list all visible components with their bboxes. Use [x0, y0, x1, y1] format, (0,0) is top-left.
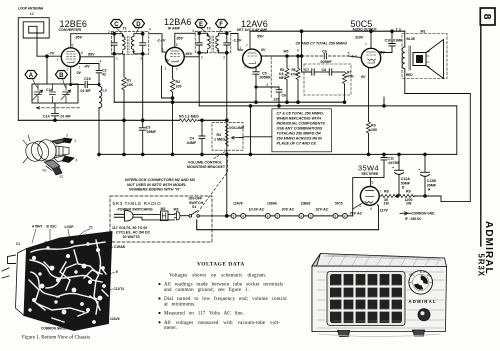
volume control pot sketch [23, 134, 78, 180]
B+ plate line across top [250, 30, 405, 32]
svg-text:1 MEG: 1 MEG [214, 138, 225, 142]
svg-text:A: A [29, 73, 34, 79]
speaker magnet and cone [413, 40, 444, 79]
svg-text:M5: M5 [284, 49, 289, 53]
sidebar rule [480, 25, 482, 246]
svg-text:INDIVIDUAL COMPONENTS: INDIVIDUAL COMPONENTS [277, 122, 326, 126]
filament 12BA6 [265, 202, 294, 219]
svg-text:+: + [418, 168, 420, 172]
svg-text:4: 4 [76, 158, 78, 162]
capacitor C9 .005MF coupling [300, 30, 361, 64]
svg-text:100: 100 [176, 85, 182, 89]
svg-text:2W: 2W [406, 202, 412, 206]
interlock connectors note [125, 178, 196, 192]
svg-text:T 3: T 3 [396, 28, 401, 32]
svg-text:5R3 TABLE RADIO: 5R3 TABLE RADIO [113, 201, 162, 206]
svg-text:NUMBERS ENDING WITH "N": NUMBERS ENDING WITH "N" [129, 188, 181, 192]
svg-text:3: 3 [334, 214, 336, 218]
svg-text:4: 4 [242, 214, 244, 218]
svg-text:6: 6 [297, 49, 299, 53]
svg-text:.05MF: .05MF [146, 130, 157, 134]
svg-text:R9: R9 [406, 190, 411, 194]
svg-text:6: 6 [370, 207, 372, 211]
node E hexagon [195, 20, 207, 33]
svg-text:LOOP ANTENNA: LOOP ANTENNA [18, 7, 44, 11]
svg-text:1: 1 [162, 48, 164, 52]
capacitor C2 42 [96, 64, 106, 85]
resistor R2 100 cathode [162, 66, 182, 156]
page number 8 box [480, 8, 495, 25]
node D hexagon [133, 20, 145, 33]
svg-text:1: 1 [240, 46, 242, 50]
svg-text:3: 3 [201, 56, 203, 60]
svg-text:5: 5 [372, 181, 374, 185]
svg-text:1: 1 [79, 66, 81, 70]
svg-text:S1: S1 [192, 205, 196, 209]
common ground pointer [41, 320, 72, 331]
capacitor C11 .047MF [371, 153, 401, 178]
resistor R7 470K [343, 71, 355, 104]
svg-text:3: 3 [310, 214, 312, 218]
svg-text:3V: 3V [165, 59, 170, 63]
svg-text:12BA6: 12BA6 [164, 17, 192, 27]
svg-text:B OSC: B OSC [47, 225, 58, 229]
svg-text:LOOP: LOOP [65, 225, 75, 229]
svg-text:CONVERTER: CONVERTER [59, 28, 82, 32]
chassis bottom view figure [2, 232, 112, 331]
svg-text:COMMON GND.: COMMON GND. [412, 212, 436, 216]
wire T1 secondary top to 12BA6 grid [149, 34, 166, 52]
svg-text:C7 & C8 TOTAL 250 MMFD.: C7 & C8 TOTAL 250 MMFD. [277, 112, 324, 116]
svg-text:5: 5 [258, 63, 260, 67]
svg-text:3: 3 [276, 214, 278, 218]
svg-text:117 VOLTS, 50 TO 60: 117 VOLTS, 50 TO 60 [112, 226, 147, 230]
node C hexagon [111, 20, 123, 33]
svg-text:4: 4 [300, 214, 302, 218]
svg-text:NOT USED IN SETS WITH MODEL: NOT USED IN SETS WITH MODEL [127, 183, 187, 187]
svg-text:-1.4V: -1.4V [157, 39, 166, 43]
wire T2 secondary to 12AV6 grid [231, 34, 243, 51]
resistor R5 6.8 MEG [279, 55, 289, 104]
svg-text:CYCLES, AC OR DC: CYCLES, AC OR DC [116, 231, 151, 235]
svg-text:5: 5 [348, 52, 350, 56]
wire speaker return [405, 94, 471, 202]
svg-text:IF AMP: IF AMP [168, 27, 181, 31]
svg-text:3: 3 [266, 83, 268, 87]
svg-text:85V: 85V [186, 52, 193, 56]
wire 12BE6 plate to T1 [71, 34, 115, 48]
wire 12AV6 diode line to M5 [261, 48, 303, 57]
svg-text:1W: 1W [384, 202, 390, 206]
svg-text:All voltages measured with vac: All voltages measured with vacuum-tube v… [164, 320, 280, 326]
interlock connector M2 [161, 207, 175, 221]
svg-text:L2: L2 [103, 89, 107, 93]
svg-text:F: F [219, 22, 223, 28]
tuning gang box [32, 84, 78, 103]
svg-text:C14: C14 [43, 114, 50, 118]
svg-text:2: 2 [223, 56, 225, 60]
svg-text:L1: L1 [30, 12, 34, 16]
svg-text:220: 220 [274, 97, 280, 101]
svg-text:55V: 55V [257, 35, 264, 39]
svg-text:85V: 85V [177, 36, 184, 40]
svg-text:4: 4 [344, 214, 346, 218]
svg-text:VOLUME: VOLUME [229, 126, 245, 130]
svg-text:C8 AND C7 TOTAL 250 MMFD: C8 AND C7 TOTAL 250 MMFD [296, 41, 348, 45]
svg-text:10.6V AC: 10.6V AC [249, 208, 265, 212]
svg-text:D: D [136, 22, 141, 28]
svg-text:22K: 22K [127, 83, 134, 87]
filament string line [225, 215, 352, 218]
svg-text:A: A [428, 188, 431, 192]
svg-text:R6: R6 [292, 68, 296, 72]
svg-text:120: 120 [421, 270, 426, 274]
svg-text:B: B [59, 73, 64, 79]
svg-text:.04MF: .04MF [186, 141, 197, 145]
resistor R9 1200 2W [399, 190, 441, 206]
wire 12BE6 cathode pin 2 down [71, 67, 82, 85]
svg-text:4: 4 [192, 29, 194, 33]
50C5 cathode resistor line [361, 68, 377, 156]
wire 12BE6 pin 6 to T1 secondary low [80, 52, 114, 56]
svg-text:D: D [402, 186, 405, 190]
svg-text:-7V: -7V [49, 51, 55, 55]
node F hexagon [216, 20, 228, 33]
power switching dashed box [110, 196, 212, 242]
loop antenna L1 [18, 7, 49, 121]
svg-text:at minimums.: at minimums. [164, 301, 196, 307]
svg-text:85V: 85V [76, 36, 83, 40]
svg-text:R5 2.2 MEG: R5 2.2 MEG [179, 114, 199, 118]
svg-text:BLUE: BLUE [407, 37, 416, 41]
svg-text:470K: 470K [346, 75, 354, 79]
tube 50C5 audio output [351, 19, 386, 68]
wire 12BA6 pin 6 to T2 [184, 52, 199, 57]
oscillator coil L2 [70, 83, 107, 155]
gang mechanical dashed link [37, 107, 81, 109]
capacitor C5 .005MF [253, 68, 272, 104]
interlock connector M3 [174, 208, 180, 221]
svg-text:20V AC: 20V AC [281, 208, 295, 212]
svg-text:R1: R1 [127, 79, 132, 83]
svg-text:Measured on 117 Volts AC line.: Measured on 117 Volts AC line. [164, 311, 244, 317]
on-off switch S1 [180, 197, 227, 218]
svg-text:A WHT: A WHT [32, 225, 42, 229]
common ground legend [400, 212, 435, 222]
svg-text:6: 6 [81, 51, 83, 55]
svg-text:C12/T4: C12/T4 [114, 287, 125, 291]
dashed box detector group [304, 64, 351, 95]
filament 50C5 [333, 202, 363, 219]
wire node -7V to 12BE6 pin 7 [37, 51, 61, 61]
wire 12AV6 pin3 to C6 [256, 83, 279, 87]
svg-text:76V AC: 76V AC [350, 211, 363, 215]
svg-text:470K: 470K [291, 73, 299, 77]
svg-text:5: 5 [176, 43, 178, 47]
svg-text:.005MF: .005MF [259, 75, 272, 79]
svg-text:R1: R1 [43, 169, 47, 173]
output transformer T3 [396, 28, 416, 94]
svg-text:8: 8 [481, 14, 493, 20]
svg-text:M1: M1 [421, 30, 426, 34]
svg-text:30 WATTS: 30 WATTS [123, 235, 141, 239]
wire AVC down to tuning gang [46, 56, 48, 84]
common ground bus y154 [99, 153, 457, 155]
capacitor C10 .01MF [381, 30, 404, 53]
voltage data text [158, 273, 287, 332]
node A hexagon [25, 71, 38, 88]
svg-text:T1: T1 [123, 26, 127, 30]
svg-text:5: 5 [72, 44, 74, 48]
svg-text:2: 2 [75, 139, 77, 143]
svg-text:7: 7 [380, 190, 382, 194]
variable capacitor C1 front section [33, 84, 43, 103]
svg-text:3: 3 [140, 57, 142, 61]
wire 12AV6 plate to B+ line [250, 31, 264, 49]
svg-text:C7: C7 [305, 68, 310, 72]
tube 35W4 rectifier [358, 164, 388, 213]
svg-text:Y2: Y2 [59, 175, 63, 179]
AC return line bottom [197, 220, 379, 230]
wire x250 [250, 106, 252, 154]
wire x456 down [456, 106, 458, 154]
electrolytic C12A 50MF [392, 153, 411, 196]
svg-text:0V: 0V [77, 71, 82, 75]
svg-text:50C5: 50C5 [335, 202, 343, 206]
svg-text:5R3X: 5R3X [477, 254, 486, 278]
wire B minus line right [383, 97, 386, 107]
svg-text:E: E [199, 22, 203, 28]
svg-text:M3: M3 [174, 208, 179, 212]
dashed volume shaft link [270, 57, 272, 98]
svg-text:-8V: -8V [84, 64, 90, 68]
B minus bus y106 [199, 53, 457, 106]
svg-text:T2: T2 [207, 26, 211, 30]
capacitor C3 .05MF line [139, 54, 157, 156]
svg-text:C8: C8 [322, 68, 327, 72]
filament 12BE6 [299, 202, 329, 219]
power switching titles [112, 201, 161, 239]
svg-text:1: 1 [116, 57, 118, 61]
svg-text:RED: RED [406, 73, 413, 77]
svg-text:2: 2 [244, 65, 246, 69]
svg-text:C9: C9 [322, 49, 327, 53]
volume control R4 1 MEG [212, 53, 272, 216]
svg-text:0V: 0V [361, 75, 366, 79]
svg-text:5-2: 5-2 [352, 55, 357, 59]
svg-text:WHEN REPLACING WITH: WHEN REPLACING WITH [277, 117, 322, 121]
svg-text:29-C4RD: 29-C4RD [44, 240, 57, 244]
capacitor C4 .04MF [186, 119, 205, 156]
svg-text:4: 4 [149, 28, 151, 32]
svg-text:R2: R2 [176, 80, 181, 84]
svg-text:M2: M2 [161, 207, 166, 211]
svg-text:.005MF: .005MF [320, 60, 333, 64]
volume control mounting bracket note [187, 151, 227, 170]
svg-text:85V: 85V [88, 52, 95, 56]
svg-text:2: 2 [108, 30, 110, 34]
svg-text:7: 7 [57, 58, 59, 62]
svg-text:RECTIFIER: RECTIFIER [362, 172, 380, 176]
tube 12BA6 IF amp [162, 17, 192, 72]
svg-text:Voltages shown on schematic di: Voltages shown on schematic diagram. [169, 273, 266, 279]
wire 12BA6 plate to T2 [175, 33, 195, 47]
svg-text:7: 7 [176, 68, 178, 72]
resistor R1 22K [122, 54, 134, 156]
wire 12BE6 grid 3 with -8V [79, 60, 101, 69]
svg-text:INTERLOCK CONNECTORS M2 AND M3: INTERLOCK CONNECTORS M2 AND M3 [125, 178, 196, 182]
svg-text:2: 2 [165, 67, 167, 71]
svg-text:and common ground; see figure: and common ground; see figure 1. [164, 286, 249, 293]
svg-text:32V AC: 32V AC [316, 208, 329, 212]
svg-text:C: C [114, 22, 119, 28]
svg-text:COMMON GROUND: COMMON GROUND [41, 327, 72, 331]
svg-text:C6: C6 [282, 94, 287, 98]
svg-text:117V: 117V [380, 209, 389, 213]
svg-text:TOTALING 250 MMFD OR: TOTALING 250 MMFD OR [277, 132, 322, 136]
svg-text:150: 150 [371, 128, 377, 132]
wire 35W4 plate to AC side [353, 178, 371, 216]
IF transformer T1 [108, 26, 151, 60]
svg-text:110V: 110V [355, 36, 364, 40]
switch to volume dashed mechanical link [198, 152, 228, 213]
svg-text:MEG: MEG [279, 76, 287, 80]
svg-text:3: 3 [66, 134, 68, 138]
svg-text:Figure 1. Bottom View of Chas: Figure 1. Bottom View of Chassis [22, 336, 90, 341]
chassis figure lead labels [32, 225, 93, 244]
svg-text:R4: R4 [217, 133, 222, 137]
svg-text:3: 3 [232, 214, 234, 218]
svg-text:7: 7 [246, 44, 248, 48]
svg-text:12BE6: 12BE6 [301, 202, 311, 206]
svg-text:USE ANY COMBINATIONS: USE ANY COMBINATIONS [277, 127, 323, 131]
AVC bus y120 with R5 2.2MEG [18, 114, 227, 122]
electrolytic C12B 30MF [418, 153, 437, 197]
radio cabinet drawing [312, 254, 447, 337]
svg-text:E: E [116, 270, 118, 274]
svg-text:12BA6: 12BA6 [267, 202, 277, 206]
svg-text:12AV6: 12AV6 [110, 317, 120, 321]
wire 50C5 plate up [370, 30, 373, 33]
IF transformer T2 [192, 26, 231, 59]
svg-text:12AV6: 12AV6 [233, 202, 243, 206]
svg-text:IF : 455 KC: IF : 455 KC [405, 217, 422, 221]
svg-text:ADMIRAL: ADMIRAL [409, 299, 437, 304]
svg-text:2: 2 [67, 68, 69, 72]
variable capacitor C1 osc section [61, 84, 71, 103]
speaker M1 dashed box [402, 30, 447, 79]
capacitor C6 220 [274, 87, 287, 107]
svg-text:7: 7 [365, 43, 367, 47]
svg-text:.01 MF: .01 MF [80, 89, 92, 93]
AC plug [115, 211, 175, 222]
wire T1 left cap line down to AVC bus [113, 57, 115, 102]
svg-text:-1.5V: -1.5V [233, 39, 242, 43]
svg-text:C1A: C1A [46, 88, 53, 92]
resistor R6 470K [291, 55, 301, 104]
tube 12AV6 det avc af amp [237, 19, 268, 68]
svg-text:POWER SWITCHING: POWER SWITCHING [118, 207, 153, 211]
svg-text:.01 MF: .01 MF [60, 114, 72, 118]
svg-text:MOUNTING BRACKET: MOUNTING BRACKET [187, 165, 226, 169]
svg-text:4: 4 [100, 60, 102, 64]
capacitor C14 [43, 103, 71, 122]
node B hexagon [55, 71, 67, 88]
boxed note C7 C8 replacement [272, 109, 332, 152]
svg-text:250 MMFD ACROSS R6 IN: 250 MMFD ACROSS R6 IN [276, 137, 323, 141]
svg-text:C15: C15 [84, 77, 91, 81]
svg-text:4: 4 [267, 214, 269, 218]
trimmer C1A [46, 84, 56, 103]
svg-text:R8: R8 [384, 190, 389, 194]
svg-text:meter.: meter. [164, 325, 177, 331]
svg-text:0V: 0V [261, 48, 266, 52]
svg-text:C1: C1 [16, 242, 20, 246]
svg-text:PLACE OF C7 AND C8.: PLACE OF C7 AND C8. [277, 142, 317, 146]
svg-text:VOLUME CONTROL: VOLUME CONTROL [188, 161, 223, 165]
filament 12AV6 [231, 202, 264, 219]
AVC bus wire y102 [114, 101, 344, 103]
svg-text:VOLTAGE DATA: VOLTAGE DATA [197, 262, 245, 268]
svg-text:+: + [392, 166, 394, 170]
svg-text:42: 42 [102, 73, 106, 77]
svg-text:C10 .01MF: C10 .01MF [385, 39, 404, 43]
resistor R8 35 1W [379, 190, 399, 206]
detector line with C7 C8 [302, 56, 345, 75]
capacitor C15 osc [71, 77, 99, 93]
svg-text:R9: R9 [371, 124, 376, 128]
svg-text:.047MF: .047MF [388, 161, 401, 165]
chassis leader labels right [16, 242, 126, 321]
tube 12BE6 converter [59, 19, 88, 72]
wire 35W4 pin4 to AC return [378, 205, 379, 230]
svg-text:AUDIO OUTPUT: AUDIO OUTPUT [353, 28, 377, 32]
svg-text:C1RAB: C1RAB [114, 245, 126, 249]
